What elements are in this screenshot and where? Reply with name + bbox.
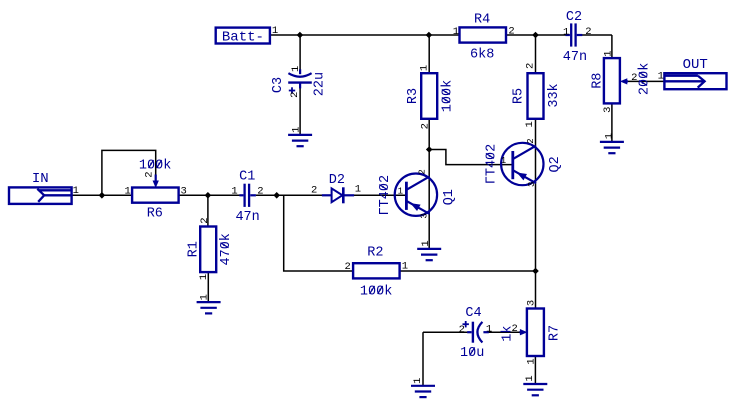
C2 pin 2 bbox=[585, 26, 591, 38]
svg-text:C1: C1 bbox=[239, 170, 255, 185]
wire from R2 pin 1 to emitter column junction bbox=[400, 270, 536, 272]
R7 pin 3 bbox=[526, 300, 538, 306]
capacitor C3 (polarized) bbox=[288, 69, 312, 93]
resistor R4 bbox=[460, 27, 507, 42]
R4 value 6k8 bbox=[470, 47, 494, 62]
ground pin 1 below R1 bbox=[198, 294, 210, 300]
svg-text:1: 1 bbox=[398, 186, 403, 196]
R7 wiper arrow bbox=[520, 330, 527, 335]
C1 value 47n bbox=[235, 210, 259, 225]
svg-text:2: 2 bbox=[417, 169, 427, 174]
svg-text:1: 1 bbox=[402, 260, 408, 272]
R3 pin 1 bbox=[419, 65, 431, 71]
wire from R7 pin 1 down to ground bbox=[534, 356, 536, 384]
svg-text:470k: 470k bbox=[219, 233, 234, 265]
R6 designator bbox=[147, 206, 163, 221]
wire from C3 bottom plate down to ground bbox=[299, 83, 301, 135]
resistor R1 bbox=[200, 227, 216, 273]
D2 pin 1 bbox=[355, 184, 361, 196]
svg-text:R3: R3 bbox=[406, 88, 421, 104]
svg-text:2: 2 bbox=[631, 72, 637, 84]
R8 wiper arrow bbox=[621, 79, 628, 84]
svg-text:1: 1 bbox=[198, 294, 210, 300]
R3 designator bbox=[406, 88, 421, 104]
svg-text:3: 3 bbox=[602, 107, 614, 113]
svg-text:1: 1 bbox=[198, 274, 210, 280]
svg-text:3: 3 bbox=[527, 182, 537, 187]
svg-text:ГТ402: ГТ402 bbox=[485, 144, 500, 185]
svg-text:IN: IN bbox=[32, 171, 49, 187]
svg-text:C4: C4 bbox=[465, 306, 481, 321]
svg-text:1: 1 bbox=[603, 133, 615, 139]
OUT net label text bbox=[683, 57, 708, 73]
R4 pin 2 bbox=[508, 26, 514, 38]
svg-text:1: 1 bbox=[231, 185, 237, 197]
svg-text:1: 1 bbox=[524, 375, 536, 381]
R5 pin 2 bbox=[524, 63, 536, 69]
svg-text:R7: R7 bbox=[547, 325, 562, 341]
Batt- net label text bbox=[222, 30, 264, 46]
junction row/R1 bbox=[205, 192, 212, 199]
svg-text:1: 1 bbox=[453, 26, 459, 38]
Q1 type label GT402 bbox=[378, 175, 393, 216]
wire from R8 pin 3 down to ground bbox=[611, 103, 613, 141]
C4 designator bbox=[465, 306, 481, 321]
D2 designator bbox=[329, 173, 345, 188]
R6 pin 2 bbox=[143, 171, 155, 177]
R3 value 100k bbox=[440, 80, 455, 112]
svg-text:1: 1 bbox=[524, 121, 536, 127]
R3 pin 2 bbox=[420, 123, 432, 129]
svg-text:R2: R2 bbox=[367, 245, 383, 260]
ground pin 1 below R8 bbox=[603, 133, 615, 139]
svg-text:1: 1 bbox=[412, 378, 424, 384]
ground pin 1 below C4 bbox=[412, 378, 424, 384]
svg-text:2: 2 bbox=[585, 26, 591, 38]
resistor R5 bbox=[528, 73, 544, 119]
wire from C4 pin 1 to R7 wiper bbox=[488, 331, 520, 333]
IN pin 1 bbox=[73, 185, 79, 197]
C2 designator bbox=[566, 10, 582, 25]
wire from R5 pin 1 down through Q2 to R7 pin 3 bbox=[535, 119, 537, 309]
svg-text:R8: R8 bbox=[591, 73, 606, 89]
capacitor C1 bbox=[239, 184, 256, 207]
svg-text:C2: C2 bbox=[566, 10, 582, 25]
C4 pin 1 bbox=[486, 323, 492, 335]
svg-text:1: 1 bbox=[602, 50, 614, 56]
svg-text:6k8: 6k8 bbox=[470, 47, 494, 62]
svg-text:R6: R6 bbox=[147, 206, 163, 221]
transistor Q1 bbox=[395, 174, 437, 216]
svg-text:2: 2 bbox=[524, 63, 536, 69]
transistor Q2 bbox=[501, 143, 543, 185]
R4 pin 1 bbox=[453, 26, 459, 38]
R5 pin 1 bbox=[524, 121, 536, 127]
wire jog from node A to Q2 base bbox=[429, 150, 512, 165]
svg-text:1: 1 bbox=[272, 25, 278, 37]
ground below R8 bbox=[600, 142, 624, 153]
resistor R7 (trimmer) bbox=[527, 309, 544, 357]
junction rail/R5 bbox=[532, 32, 539, 39]
svg-text:2: 2 bbox=[289, 92, 301, 98]
svg-text:D2: D2 bbox=[329, 173, 345, 188]
resistor R3 bbox=[421, 73, 437, 119]
svg-text:1: 1 bbox=[290, 66, 302, 72]
wire from rail junction down to R3 pin 1 bbox=[428, 35, 430, 73]
resistor R6 (trimmer) bbox=[132, 188, 179, 203]
R5 value 33k bbox=[547, 83, 562, 107]
wire input row from IN pin 1 to C1 pin 1 bbox=[72, 194, 240, 196]
svg-text:22u: 22u bbox=[313, 72, 328, 96]
D2 pin 2 bbox=[311, 185, 317, 197]
R8 pin 3 bbox=[602, 107, 614, 113]
C1 designator bbox=[239, 170, 255, 185]
svg-text:3: 3 bbox=[420, 213, 430, 218]
svg-text:2: 2 bbox=[311, 185, 317, 197]
wire corner down to R8 pin 1 bbox=[611, 35, 613, 58]
IN net label text bbox=[32, 171, 49, 187]
R8 designator bbox=[591, 73, 606, 89]
svg-text:2: 2 bbox=[512, 323, 518, 335]
svg-text:1: 1 bbox=[290, 127, 302, 133]
svg-text:47n: 47n bbox=[563, 50, 587, 65]
wire top rail from R4 pin 2 to C2 pin 1 bbox=[506, 34, 566, 36]
R5 designator bbox=[511, 88, 526, 104]
svg-text:2: 2 bbox=[257, 186, 263, 198]
svg-text:1: 1 bbox=[420, 240, 432, 246]
svg-text:Batt-: Batt- bbox=[222, 30, 264, 46]
junction node A R3/Q1/Q2 bbox=[426, 146, 433, 153]
R1 designator bbox=[186, 241, 201, 257]
Q2 type label GT402 bbox=[485, 144, 500, 185]
svg-text:1: 1 bbox=[73, 185, 79, 197]
svg-text:R1: R1 bbox=[186, 241, 201, 257]
Q2 designator bbox=[548, 156, 563, 172]
Q1 pin 1 (base) bbox=[398, 186, 403, 196]
C2 value 47n bbox=[563, 50, 587, 65]
svg-text:1: 1 bbox=[486, 323, 492, 335]
R1 pin 1 bbox=[198, 274, 210, 280]
R6 value 100k bbox=[139, 159, 171, 174]
R7 pin 2 bbox=[512, 323, 518, 335]
svg-text:1: 1 bbox=[501, 156, 506, 166]
junction rail/C3 bbox=[297, 32, 304, 39]
OUT pin 1 bbox=[658, 71, 664, 83]
connector Batt- bbox=[216, 28, 270, 44]
svg-text:47n: 47n bbox=[235, 210, 259, 225]
svg-text:1: 1 bbox=[658, 71, 664, 83]
svg-text:200k: 200k bbox=[638, 63, 653, 95]
svg-text:2: 2 bbox=[199, 217, 211, 223]
svg-text:3: 3 bbox=[526, 300, 538, 306]
resistor R8 (trimmer) bbox=[604, 58, 620, 103]
R8 value 200k bbox=[638, 63, 653, 95]
svg-text:R4: R4 bbox=[474, 13, 490, 28]
Q1 pin 2 (collector) bbox=[417, 169, 427, 174]
svg-text:Q1: Q1 bbox=[442, 189, 457, 205]
junction R2/Q2 emitter column bbox=[532, 268, 539, 275]
svg-text:1: 1 bbox=[419, 65, 431, 71]
R1 value 470k bbox=[219, 233, 234, 265]
ground below R1 bbox=[197, 302, 221, 313]
C3 pin 2 bbox=[289, 92, 301, 98]
capacitor C4 (polarized) bbox=[463, 321, 489, 343]
R6 pin 3 bbox=[181, 186, 187, 198]
C1 pin 1 bbox=[231, 185, 237, 197]
Q2 pin 3 (emitter) bbox=[527, 182, 537, 187]
wire corner down to ground below C4 bbox=[422, 332, 424, 386]
capacitor C2 bbox=[566, 23, 583, 46]
R7 value 1k bbox=[500, 325, 515, 341]
Batt- pin 1 bbox=[272, 25, 278, 37]
svg-text:2: 2 bbox=[459, 324, 465, 336]
Q1 pin 3 (emitter) bbox=[420, 213, 430, 218]
junction row/C1-D2 bbox=[273, 192, 280, 199]
wire from R8 wiper to OUT pin 1 bbox=[626, 80, 664, 82]
ground pin 1 below C3 bbox=[290, 127, 302, 133]
C4 value 10u bbox=[460, 346, 484, 361]
R8 pin 2 bbox=[631, 72, 637, 84]
svg-text:10u: 10u bbox=[460, 346, 484, 361]
wire from R3 pin 2 down through Q1 to ground bbox=[428, 119, 430, 249]
wire from R1 pin 1 down to ground bbox=[207, 272, 209, 302]
svg-text:100k: 100k bbox=[440, 80, 455, 112]
R8 pin 1 bbox=[602, 50, 614, 56]
wire from C1 pin 2 to D2 pin 2 bbox=[256, 194, 322, 196]
wire from rail junction down to R5 pin 2 bbox=[535, 35, 537, 73]
R2 pin 2 bbox=[344, 261, 350, 273]
ground below C3 bbox=[288, 135, 312, 146]
resistor R2 bbox=[353, 263, 400, 278]
wire branch from C1 node down to R2 pin 2 bbox=[284, 195, 353, 271]
junction IN/R6 loop bbox=[99, 192, 106, 199]
svg-text:2: 2 bbox=[508, 26, 514, 38]
ground below R7 bbox=[523, 384, 547, 395]
wire C3 branch from rail junction down to C3 plate bbox=[299, 35, 301, 71]
svg-text:C3: C3 bbox=[271, 77, 286, 93]
wire top rail from Batt- to R4 pin 1 bbox=[270, 34, 460, 36]
wire from D2 pin 1 to Q1 base bbox=[354, 194, 406, 196]
svg-text:OUT: OUT bbox=[683, 57, 708, 73]
svg-text:R5: R5 bbox=[511, 88, 526, 104]
wire from row junction down to R1 pin 2 bbox=[207, 195, 209, 226]
Q2 pin 2 (collector) bbox=[526, 138, 536, 143]
svg-text:ГТ402: ГТ402 bbox=[378, 175, 393, 216]
R6 pin 1 bbox=[124, 186, 130, 198]
R1 pin 2 bbox=[199, 217, 211, 223]
svg-text:1: 1 bbox=[124, 186, 130, 198]
svg-text:2: 2 bbox=[420, 123, 432, 129]
svg-text:33k: 33k bbox=[547, 83, 562, 107]
R7 designator bbox=[547, 325, 562, 341]
wire from C2 pin 2 to corner above R8 bbox=[582, 34, 612, 36]
svg-text:1: 1 bbox=[526, 358, 538, 364]
R2 value 100k bbox=[360, 285, 392, 300]
ground below Q1 bbox=[417, 249, 441, 260]
junction rail/R3 bbox=[426, 32, 433, 39]
connector IN bbox=[9, 187, 72, 204]
C2 pin 1 bbox=[563, 27, 569, 39]
R2 pin 1 bbox=[402, 260, 408, 272]
ground pin 1 below Q1 bbox=[420, 240, 432, 246]
C3 pin 1 bbox=[290, 66, 302, 72]
Q1 designator bbox=[442, 189, 457, 205]
ground below C4 bbox=[411, 386, 435, 397]
wire from C4 pin 2 left to corner bbox=[423, 331, 468, 333]
Q2 pin 1 (base) bbox=[501, 156, 506, 166]
connector OUT bbox=[664, 73, 726, 89]
svg-text:100k: 100k bbox=[360, 285, 392, 300]
C1 pin 2 bbox=[257, 186, 263, 198]
svg-text:2: 2 bbox=[143, 171, 155, 177]
C3 designator bbox=[271, 77, 286, 93]
svg-text:1: 1 bbox=[563, 27, 569, 39]
R4 designator bbox=[474, 13, 490, 28]
svg-text:2: 2 bbox=[526, 138, 536, 143]
R2 designator bbox=[367, 245, 383, 260]
R7 pin 1 bbox=[526, 358, 538, 364]
wire R6 feedback loop bbox=[102, 150, 156, 195]
svg-text:3: 3 bbox=[181, 186, 187, 198]
ground pin 1 below R7 bbox=[524, 375, 536, 381]
diode D2 bbox=[322, 187, 354, 203]
svg-text:1: 1 bbox=[355, 184, 361, 196]
svg-text:2: 2 bbox=[344, 261, 350, 273]
C4 pin 2 bbox=[459, 324, 465, 336]
C3 value 22u bbox=[313, 72, 328, 96]
R6 wiper arrow bbox=[153, 175, 158, 188]
svg-text:Q2: Q2 bbox=[548, 156, 563, 172]
